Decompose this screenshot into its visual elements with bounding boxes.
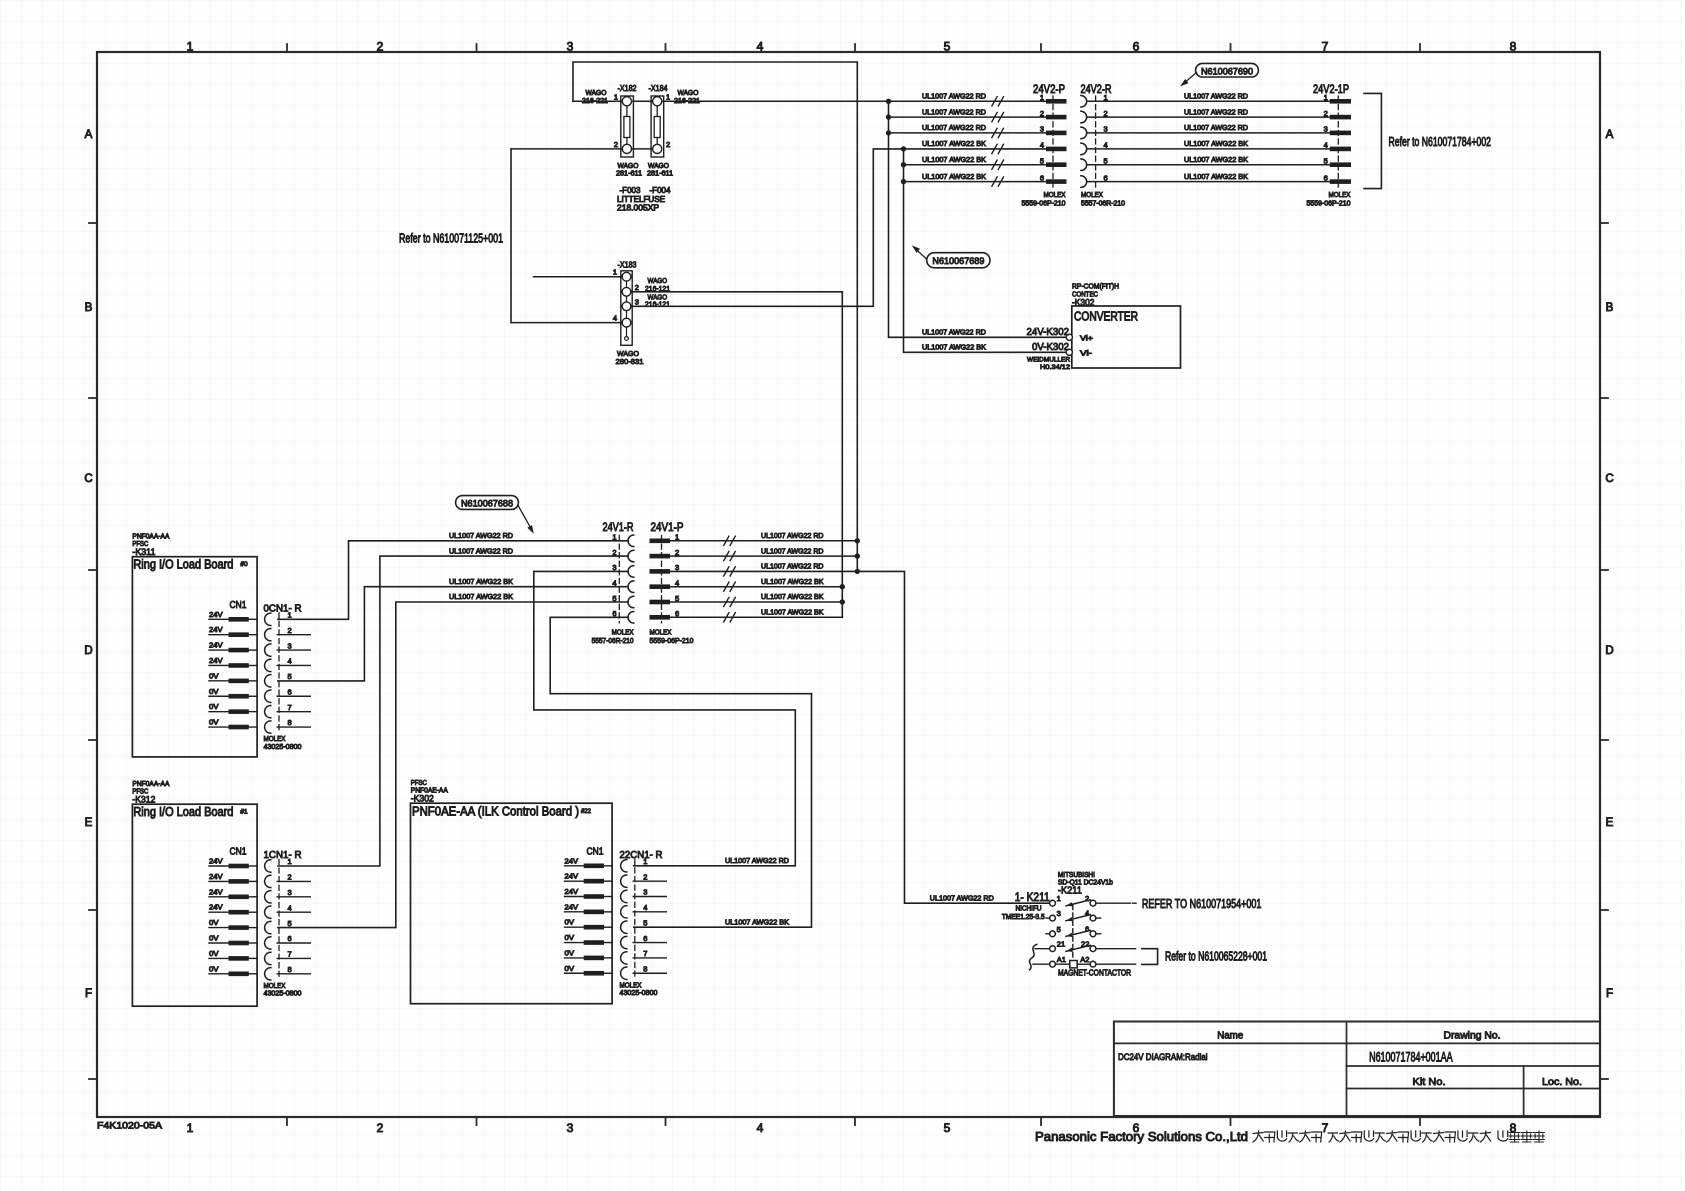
wire 24V1-P pin4 xyxy=(670,586,842,588)
wires: 24V2-R to 24V2-1P rows xyxy=(1087,100,1330,102)
wire: RD bus down to converter Vi+ xyxy=(889,101,1066,337)
svg-text:2: 2 xyxy=(1324,109,1328,118)
svg-text:1: 1 xyxy=(187,40,194,54)
wire: fuse input row from Refer-bracket to X182/X184 pin2 xyxy=(511,148,622,150)
svg-text:0V: 0V xyxy=(565,933,575,942)
svg-text:B: B xyxy=(1606,302,1614,314)
wire: 1CN1-R pin5 riser to 24V1-R pin5 xyxy=(278,602,628,928)
svg-text:PNF0AE-AA (ILK Control Board: PNF0AE-AA (ILK Control Board ) xyxy=(412,804,579,818)
wire 24V1-P pin2 xyxy=(670,555,857,557)
wire: 22CN1-R pin1 route to 24V1-R pin3 xyxy=(534,571,796,865)
svg-text:UL1007 AWG22 BK: UL1007 AWG22 BK xyxy=(1184,139,1248,148)
svg-text:-X182: -X182 xyxy=(618,83,637,93)
svg-text:3: 3 xyxy=(288,641,292,650)
svg-text:7: 7 xyxy=(288,950,292,959)
svg-text:D: D xyxy=(1605,645,1613,657)
bracket: Refer to N610071784+002 xyxy=(1364,93,1491,188)
svg-text:-X184: -X184 xyxy=(649,83,668,93)
svg-text:1: 1 xyxy=(614,93,618,102)
svg-text:Loc. No.: Loc. No. xyxy=(1542,1076,1582,1088)
svg-text:5: 5 xyxy=(1057,925,1061,934)
wire: 24V feed loop from fuse output row up-over to 24V1-P RD bus xyxy=(573,62,857,571)
svg-text:8: 8 xyxy=(643,964,647,973)
svg-text:UL1007 AWG22 BK: UL1007 AWG22 BK xyxy=(761,577,824,586)
svg-text:24V: 24V xyxy=(565,856,579,865)
svg-text:4: 4 xyxy=(288,903,292,912)
svg-text:4: 4 xyxy=(613,313,617,322)
wire 24V1-P pin6 xyxy=(670,616,842,618)
junction dots top buses xyxy=(886,114,891,119)
svg-text:6: 6 xyxy=(1085,924,1089,933)
svg-text:24V2-P: 24V2-P xyxy=(1033,82,1065,96)
svg-text:24V: 24V xyxy=(209,610,223,619)
svg-text:#22: #22 xyxy=(581,808,591,815)
svg-text:0V: 0V xyxy=(209,949,219,958)
svg-text:UL1007 AWG22 RD: UL1007 AWG22 RD xyxy=(922,92,986,101)
svg-text:UL1007 AWG22 RD: UL1007 AWG22 RD xyxy=(725,856,789,865)
svg-text:5557-06R-210: 5557-06R-210 xyxy=(1081,198,1125,207)
contactor K211 (MITSUBISHI SD-Q11 DC24V1b MAGNET-CONTACTOR) xyxy=(1058,870,1131,978)
svg-text:3: 3 xyxy=(1040,125,1044,134)
svg-text:UL1007 AWG22 BK: UL1007 AWG22 BK xyxy=(1184,155,1248,164)
svg-text:3: 3 xyxy=(567,1121,574,1135)
cable-crossing marks on 24V1-P rows xyxy=(724,536,729,545)
wire: 24V2-P pin3 row xyxy=(889,132,1047,134)
connector 24V2-R (MOLEX 5557-06R-210) xyxy=(1081,82,1126,207)
svg-text:Kit No.: Kit No. xyxy=(1413,1076,1446,1088)
connector 24V1-P (MOLEX 5559-06P-210) xyxy=(650,520,694,645)
svg-text:8: 8 xyxy=(288,965,292,974)
svg-text:3: 3 xyxy=(635,298,639,307)
svg-text:UL1007 AWG22 RD: UL1007 AWG22 RD xyxy=(1184,92,1248,101)
footer company name (japanese) xyxy=(1253,1131,1544,1142)
svg-text:4: 4 xyxy=(643,903,647,912)
wire: X183 pin4 stub from refer bracket xyxy=(511,322,622,324)
svg-text:24V: 24V xyxy=(209,641,223,650)
svg-text:0V: 0V xyxy=(209,918,219,927)
svg-text:4: 4 xyxy=(1324,141,1328,150)
svg-text:F: F xyxy=(85,988,92,1000)
svg-text:1: 1 xyxy=(1324,93,1328,102)
svg-text:5: 5 xyxy=(288,672,292,681)
contact 3-4 xyxy=(1050,909,1096,922)
junction: RD bus taps at x=888.5 xyxy=(886,99,891,104)
svg-text:Vi+: Vi+ xyxy=(1080,333,1094,342)
svg-text:B: B xyxy=(85,302,93,314)
svg-text:281-611: 281-611 xyxy=(616,171,642,178)
svg-text:6: 6 xyxy=(1133,40,1140,54)
wire: X183 pin2 to 24V1-P BK bus (down at x=842.3) xyxy=(631,292,842,618)
wire: 24V2-P pin2 row xyxy=(889,116,1047,118)
svg-text:43025-0800: 43025-0800 xyxy=(264,989,302,998)
wire: 24V2-P pin6 row xyxy=(904,181,1047,183)
connector X183 (WAGO 280-831) xyxy=(613,260,670,367)
title block xyxy=(1114,1022,1600,1117)
svg-text:UL1007 AWG22 RD: UL1007 AWG22 RD xyxy=(922,123,986,132)
svg-text:6: 6 xyxy=(288,687,292,696)
svg-text:0V-K302: 0V-K302 xyxy=(1032,341,1069,353)
svg-text:N610067689: N610067689 xyxy=(932,256,984,267)
bracket: Refer to N610071125+001 source xyxy=(399,149,511,323)
svg-text:CN1: CN1 xyxy=(230,846,247,858)
svg-text:-X183: -X183 xyxy=(618,260,637,270)
svg-text:Drawing No.: Drawing No. xyxy=(1444,1029,1501,1041)
svg-text:C: C xyxy=(1605,473,1613,485)
svg-text:Refer to N610065228+001: Refer to N610065228+001 xyxy=(1165,950,1267,964)
svg-text:2: 2 xyxy=(1085,894,1089,903)
svg-text:6: 6 xyxy=(1324,173,1328,182)
svg-text:A: A xyxy=(85,129,93,141)
svg-text:5557-06R-210: 5557-06R-210 xyxy=(592,636,634,645)
svg-text:-K211: -K211 xyxy=(1058,884,1082,896)
svg-text:2: 2 xyxy=(635,283,639,292)
svg-text:3: 3 xyxy=(1057,909,1061,918)
svg-text:WAGO: WAGO xyxy=(678,90,700,97)
svg-text:UL1007 AWG22 RD: UL1007 AWG22 RD xyxy=(449,531,513,540)
svg-text:A: A xyxy=(1606,129,1614,141)
svg-text:4: 4 xyxy=(757,1121,764,1135)
svg-text:8: 8 xyxy=(288,718,292,727)
svg-text:216-221: 216-221 xyxy=(674,98,700,105)
svg-text:2: 2 xyxy=(643,872,647,881)
svg-text:#1: #1 xyxy=(240,809,248,816)
svg-text:1- K211: 1- K211 xyxy=(1015,890,1050,904)
svg-text:3: 3 xyxy=(567,40,574,54)
svg-text:2: 2 xyxy=(288,626,292,635)
svg-text:1: 1 xyxy=(643,857,647,866)
svg-text:1: 1 xyxy=(187,1121,194,1135)
svg-text:A2: A2 xyxy=(1080,955,1089,964)
fuse F004 (-X184, WAGO 281-611) xyxy=(647,83,700,195)
svg-text:WAGO: WAGO xyxy=(586,90,608,97)
wire: contact 22 and coil A2 outputs xyxy=(1096,948,1136,950)
svg-text:0V: 0V xyxy=(209,702,219,711)
svg-text:H0.34/12: H0.34/12 xyxy=(1040,364,1070,371)
svg-text:43025-0800: 43025-0800 xyxy=(264,742,302,751)
connector 22CN1- R (MOLEX 43025-0800) xyxy=(620,849,667,997)
svg-text:UL1007 AWG22 RD: UL1007 AWG22 RD xyxy=(761,546,824,555)
svg-text:F: F xyxy=(1606,988,1613,1000)
svg-text:A1: A1 xyxy=(1057,955,1066,964)
wire: fuse pin-1 row (X182/X184 outputs to 24V2-P pin1) xyxy=(573,100,622,102)
balloon label N610067690 xyxy=(1180,63,1258,86)
svg-text:1: 1 xyxy=(613,268,617,277)
svg-text:UL1007 AWG22 BK: UL1007 AWG22 BK xyxy=(761,608,824,617)
svg-text:6: 6 xyxy=(643,934,647,943)
svg-text:-F003: -F003 xyxy=(620,185,641,195)
bracket: Refer to N610065228+001 xyxy=(1142,949,1267,965)
connector 1CN1- R (MOLEX 43025-0800) xyxy=(264,849,311,997)
svg-text:24V: 24V xyxy=(565,887,579,896)
svg-text:22: 22 xyxy=(1081,939,1089,948)
svg-text:CN1: CN1 xyxy=(587,845,604,857)
svg-text:5: 5 xyxy=(1040,157,1044,166)
svg-text:43025-0800: 43025-0800 xyxy=(620,988,658,997)
junction dots 24V1 buses xyxy=(855,538,860,543)
svg-text:1: 1 xyxy=(288,857,292,866)
svg-text:UL1007 AWG22 RD: UL1007 AWG22 RD xyxy=(1184,107,1248,116)
svg-text:Vi-: Vi- xyxy=(1080,348,1093,357)
svg-text:5: 5 xyxy=(288,919,292,928)
wire: X183 pin1 stub from refer bracket xyxy=(534,276,623,278)
svg-text:24V: 24V xyxy=(565,902,579,911)
svg-text:3: 3 xyxy=(288,888,292,897)
contact 21-22 xyxy=(1050,939,1096,952)
svg-text:5: 5 xyxy=(944,1121,951,1135)
contact A1-A2 xyxy=(1050,955,1096,968)
wire: 1CN1-R pin1 riser to 24V1-R pin2 xyxy=(278,556,628,866)
svg-text:CN1: CN1 xyxy=(230,599,247,611)
svg-text:3: 3 xyxy=(643,888,647,897)
svg-text:1: 1 xyxy=(288,611,292,620)
balloon label N610067689 xyxy=(912,245,990,267)
svg-text:C: C xyxy=(84,473,92,485)
board K302 (PNF0AE-AA ILK Control Board #22) xyxy=(411,780,613,1004)
svg-text:2: 2 xyxy=(614,140,618,149)
board K312 (PNF0AA-AA PFSC Ring I/O Load Board #1) xyxy=(132,781,257,1006)
svg-text:UL1007 AWG22 RD: UL1007 AWG22 RD xyxy=(761,531,824,540)
svg-text:Ring I/O Load Board: Ring I/O Load Board xyxy=(133,558,233,572)
wire 24V1-P pin5 xyxy=(670,601,842,603)
svg-text:UL1007 AWG22 RD: UL1007 AWG22 RD xyxy=(761,562,824,571)
svg-text:4: 4 xyxy=(288,657,292,666)
cable-crossing marks on 24V2-P rows xyxy=(992,97,997,106)
svg-text:UL1007 AWG22 BK: UL1007 AWG22 BK xyxy=(1184,172,1248,181)
svg-text:1: 1 xyxy=(1040,93,1044,102)
svg-text:WEIDMULLER: WEIDMULLER xyxy=(1027,357,1070,364)
svg-text:5: 5 xyxy=(944,40,951,54)
svg-text:D: D xyxy=(84,645,92,657)
svg-text:-K311: -K311 xyxy=(132,547,155,558)
svg-text:WAGO: WAGO xyxy=(618,163,640,170)
svg-text:2: 2 xyxy=(377,1121,384,1135)
svg-text:Panasonic Factory Solutions Co: Panasonic Factory Solutions Co.,Ltd xyxy=(1035,1129,1248,1144)
svg-text:24V: 24V xyxy=(209,872,223,881)
svg-text:3: 3 xyxy=(1324,125,1328,134)
svg-text:UL1007 AWG22 BK: UL1007 AWG22 BK xyxy=(922,343,986,352)
wire: 24V2-P pin5 row xyxy=(904,164,1047,166)
svg-text:0V: 0V xyxy=(565,918,575,927)
wire 24V1-P pin1 xyxy=(670,540,857,542)
svg-text:2: 2 xyxy=(288,873,292,882)
svg-text:UL1007 AWG22 BK: UL1007 AWG22 BK xyxy=(725,917,789,926)
svg-text:0V: 0V xyxy=(209,718,219,727)
svg-text:5559-06P-210: 5559-06P-210 xyxy=(1307,198,1351,207)
svg-text:UL1007 AWG22 RD: UL1007 AWG22 RD xyxy=(449,546,513,555)
wire: 22CN1-R pin5 route to 24V1-R pin6 xyxy=(550,617,811,927)
footer company name xyxy=(1035,1129,1248,1144)
converter U K302 (RP-COM(FIT)H CONTEC) xyxy=(1072,282,1181,369)
svg-text:WAGO: WAGO xyxy=(648,163,670,170)
svg-text:5: 5 xyxy=(1324,157,1328,166)
svg-text:4: 4 xyxy=(757,40,764,54)
svg-text:UL1007 AWG22 RD: UL1007 AWG22 RD xyxy=(922,328,986,337)
svg-text:7: 7 xyxy=(1322,40,1329,54)
svg-text:N610071784+001AA: N610071784+001AA xyxy=(1369,1050,1453,1065)
svg-text:N610067688: N610067688 xyxy=(461,499,513,510)
svg-text:Name: Name xyxy=(1217,1029,1243,1041)
svg-text:218.005XP: 218.005XP xyxy=(617,204,659,213)
svg-text:TMEE1.25-3.5: TMEE1.25-3.5 xyxy=(1002,912,1045,921)
terminal Vi+ xyxy=(1066,334,1072,340)
svg-text:24V: 24V xyxy=(209,887,223,896)
wire: 0CN1-R pin1 riser to 24V1-R pin1 xyxy=(278,541,628,620)
svg-text:UL1007 AWG22 RD: UL1007 AWG22 RD xyxy=(922,107,986,116)
wire: X183 pin3 up to 24V2-P pin4 row xyxy=(631,149,1046,306)
svg-text:216-221: 216-221 xyxy=(582,98,608,105)
stub wires rows 3,5 left xyxy=(1046,917,1050,919)
svg-text:7: 7 xyxy=(288,703,292,712)
contact 5-6 xyxy=(1050,924,1096,937)
svg-text:0V: 0V xyxy=(565,948,575,957)
svg-text:1: 1 xyxy=(666,93,670,102)
svg-text:-K302: -K302 xyxy=(411,794,434,805)
svg-text:5559-06P-210: 5559-06P-210 xyxy=(650,636,694,645)
svg-text:Refer to N610071125+001: Refer to N610071125+001 xyxy=(399,232,503,246)
svg-text:UL1007 AWG22 BK: UL1007 AWG22 BK xyxy=(922,139,986,148)
svg-text:UL1007 AWG22 BK: UL1007 AWG22 BK xyxy=(922,155,986,164)
svg-text:Refer to N610071784+002: Refer to N610071784+002 xyxy=(1389,135,1492,149)
svg-text:MAGNET-CONTACTOR: MAGNET-CONTACTOR xyxy=(1058,968,1131,978)
svg-text:21: 21 xyxy=(1057,940,1065,949)
svg-text:2: 2 xyxy=(1040,109,1044,118)
svg-text:PNF0AA-AA: PNF0AA-AA xyxy=(132,534,169,541)
wire: contact 2 output to REFER note xyxy=(1096,902,1130,904)
svg-text:5559-06P-210: 5559-06P-210 xyxy=(1022,198,1066,207)
svg-text:0V: 0V xyxy=(209,964,219,973)
svg-text:24V2-1P: 24V2-1P xyxy=(1313,82,1349,96)
wire: BK bus down to converter Vi- xyxy=(904,149,1066,352)
svg-text:6: 6 xyxy=(288,934,292,943)
stub wires rows 4,6 right xyxy=(1096,917,1101,919)
svg-text:8: 8 xyxy=(1510,40,1517,54)
svg-text:281-611: 281-611 xyxy=(647,171,673,178)
svg-text:0V: 0V xyxy=(209,687,219,696)
contact 1-2 xyxy=(1050,894,1096,907)
svg-text:F4K1020-05A: F4K1020-05A xyxy=(97,1121,163,1132)
svg-text:24V-K302: 24V-K302 xyxy=(1027,326,1070,338)
connector 0CN1- R (MOLEX 43025-0800) xyxy=(264,603,311,751)
balloon label N610067688 xyxy=(456,496,534,534)
svg-text:UL1007 AWG22 BK: UL1007 AWG22 BK xyxy=(449,577,513,586)
svg-text:24V: 24V xyxy=(209,625,223,634)
svg-text:-F004: -F004 xyxy=(650,185,671,195)
svg-text:24V: 24V xyxy=(565,872,579,881)
svg-text:7: 7 xyxy=(643,949,647,958)
svg-text:N610067690: N610067690 xyxy=(1201,66,1253,77)
svg-text:#0: #0 xyxy=(240,561,248,568)
connector 24V2-P (MOLEX 5559-06P-210) xyxy=(1022,82,1067,207)
svg-text:DC24V DIAGRAM:Radial: DC24V DIAGRAM:Radial xyxy=(1118,1052,1208,1063)
svg-text:0V: 0V xyxy=(209,934,219,943)
contactor mechanical link (dashed) xyxy=(1072,905,1074,960)
svg-text:24V: 24V xyxy=(209,857,223,866)
fuse F003 (-X182, WAGO 281-611, LITTELFUSE 218.005XP) xyxy=(582,83,665,213)
svg-text:4: 4 xyxy=(1085,909,1089,918)
svg-text:PNF0AA-AA: PNF0AA-AA xyxy=(132,781,169,788)
svg-text:4: 4 xyxy=(1040,141,1044,150)
svg-text:0V: 0V xyxy=(209,671,219,680)
connector 24V1-R (MOLEX 5557-06R-210) xyxy=(592,520,634,645)
svg-text:REFER TO N610071954+001: REFER TO N610071954+001 xyxy=(1142,896,1262,911)
svg-text:2: 2 xyxy=(666,140,670,149)
svg-text:-K312: -K312 xyxy=(132,795,155,806)
svg-text:24V: 24V xyxy=(209,903,223,912)
svg-text:280-831: 280-831 xyxy=(616,357,644,366)
wire 24V1-P pin3 to K211 coil feed xyxy=(670,571,1050,903)
svg-text:24V: 24V xyxy=(209,656,223,665)
wire: squiggle continuation into contact 21/A1 xyxy=(1029,944,1036,970)
wire: 0CN1-R pin5 riser to 24V1-R pin4 xyxy=(278,587,628,681)
svg-text:-K302: -K302 xyxy=(1072,298,1095,309)
svg-text:E: E xyxy=(85,817,93,829)
svg-text:0V: 0V xyxy=(565,964,575,973)
svg-text:Ring I/O Load Board: Ring I/O Load Board xyxy=(133,805,233,819)
svg-text:6: 6 xyxy=(1040,173,1044,182)
svg-text:UL1007 AWG22 BK: UL1007 AWG22 BK xyxy=(922,172,986,181)
svg-text:UL1007 AWG22 RD: UL1007 AWG22 RD xyxy=(930,894,994,903)
svg-text:UL1007 AWG22 RD: UL1007 AWG22 RD xyxy=(1184,123,1248,132)
board K311 (PNF0AA-AA PFSC Ring I/O Load Board #0) xyxy=(132,534,257,757)
svg-text:E: E xyxy=(1606,817,1614,829)
svg-text:UL1007 AWG22 BK: UL1007 AWG22 BK xyxy=(761,592,824,601)
svg-text:1: 1 xyxy=(1057,894,1061,903)
svg-text:2: 2 xyxy=(377,40,384,54)
svg-text:5: 5 xyxy=(643,918,647,927)
svg-text:PFSC: PFSC xyxy=(411,780,427,787)
svg-text:CONVERTER: CONVERTER xyxy=(1074,310,1138,324)
svg-text:UL1007 AWG22 BK: UL1007 AWG22 BK xyxy=(449,592,513,601)
connector 24V2-1P (MOLEX 5559-06P-210) xyxy=(1307,82,1352,207)
svg-text:24V1-R: 24V1-R xyxy=(603,520,634,534)
terminal Vi- xyxy=(1066,349,1072,355)
